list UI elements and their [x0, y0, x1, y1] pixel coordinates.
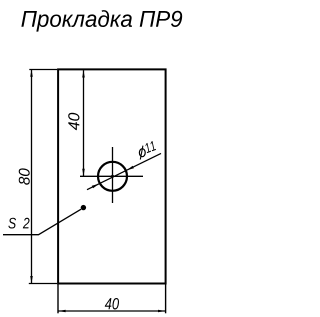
- extension line bottom-left: [29, 283, 57, 285]
- arrow 80 top: [30, 70, 33, 77]
- title "Прокладка ПР9": [21, 10, 182, 31]
- extension line bottom left edge: [57, 284, 59, 313]
- dimension line 40 bottom: [58, 310, 165, 312]
- dimension line 80: [31, 70, 33, 283]
- arrow 40v top: [82, 70, 85, 77]
- centerline horizontal: [80, 175, 143, 177]
- arrow 40v bottom: [82, 169, 85, 176]
- label S: [8, 218, 16, 229]
- dim text 40 vertical: [68, 113, 79, 130]
- dimension line 40 vertical: [83, 70, 85, 176]
- leader line O11: [87, 153, 161, 189]
- label 2: [23, 218, 30, 229]
- extension line bottom right edge: [165, 284, 167, 313]
- leader S2 shelf: [3, 209, 81, 235]
- extension line top-left: [29, 69, 57, 71]
- label O11 diameter symbol: [139, 146, 145, 160]
- centerline vertical: [112, 147, 114, 203]
- arrow O11 upper-right: [127, 166, 134, 171]
- arrow 40b right: [158, 310, 165, 313]
- arrow 40b left: [58, 310, 65, 313]
- label O11 digits: [146, 141, 156, 153]
- center dot: [111, 175, 114, 178]
- leader S2 dot: [81, 205, 86, 210]
- arrow O11 lower-left: [92, 184, 99, 189]
- hole circle O11: [98, 162, 127, 191]
- dim text 80: [19, 168, 30, 184]
- gasket outline rectangle: [58, 69, 166, 283]
- arrow 80 bottom: [30, 276, 33, 283]
- dim text 40 bottom: [105, 298, 119, 309]
